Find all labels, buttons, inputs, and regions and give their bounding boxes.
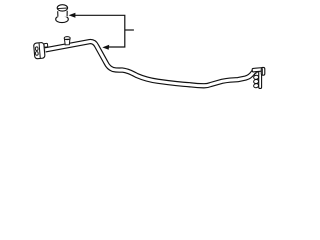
callout leader lines [69,13,134,50]
coil lead-in [255,72,258,75]
left fitting block B1 [34,42,48,59]
service valve V1 on pipe [64,37,70,45]
coil turn 2 [253,79,259,84]
right end fitting F1 [252,67,265,88]
arrowhead to pipe [102,45,109,50]
arrowhead to grommet [69,13,76,18]
top cap tab [252,68,264,72]
pipe P1 (main tube, double-line) [45,42,255,86]
coil turn 3 [253,83,259,88]
parts diagram: A/C pipe assembly [0,0,300,107]
stub tick [125,29,134,31]
grommet G1 (top cap) [56,5,69,23]
plate bar (vertical, edge-on) [259,70,262,88]
tube nut N1 [44,43,48,47]
coil turn 1 [253,75,259,80]
right flap [261,67,265,75]
